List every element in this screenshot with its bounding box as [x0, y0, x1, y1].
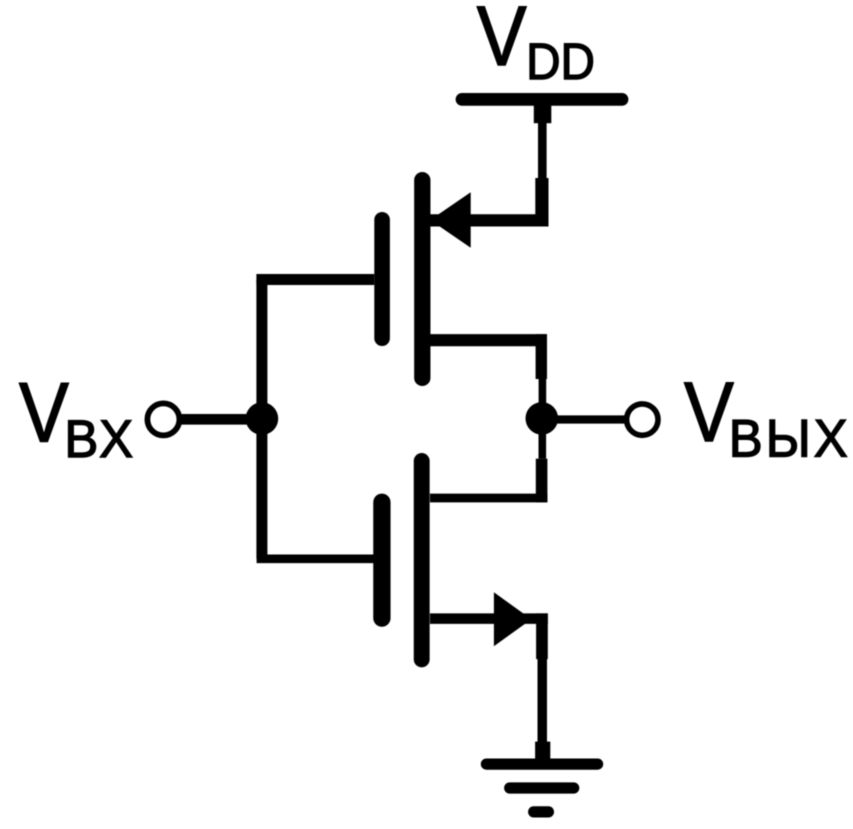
gate bus vertical wire — [256, 280, 267, 559]
NMOS source arrow (pointing out of channel) — [494, 592, 532, 646]
NMOS source wire (horizontal) — [430, 613, 548, 624]
PMOS drain wire (horizontal) — [430, 334, 547, 346]
PMOS source arrow (pointing into channel) — [430, 192, 471, 247]
PMOS source wire (horizontal) — [430, 214, 549, 226]
PMOS gate wire — [256, 274, 374, 285]
VDD power rail — [462, 93, 622, 106]
output terminal circle — [627, 404, 658, 435]
svg-text:ВХ: ВХ — [64, 410, 136, 469]
NMOS gate wire — [257, 554, 374, 563]
transistor Q2 NMOS channel bar — [414, 461, 430, 659]
ground symbol — [486, 764, 597, 812]
transistor Q1 PMOS channel bar — [414, 180, 430, 378]
wire output node to output terminal — [552, 415, 625, 423]
NMOS drain wire (horizontal) — [430, 494, 547, 503]
svg-text:V: V — [684, 365, 734, 459]
svg-text:DD: DD — [526, 34, 595, 91]
wire VDD rail to PMOS source pin — [534, 99, 552, 226]
transistor Q2 NMOS gate bar — [373, 502, 390, 618]
transistor Q1 PMOS gate bar — [374, 220, 390, 338]
wire NMOS source to ground — [535, 613, 550, 759]
wire output node to NMOS drain — [536, 424, 548, 502]
input wire terminal to input node — [180, 414, 262, 425]
input terminal circle — [147, 403, 179, 435]
svg-text:V: V — [19, 365, 69, 459]
net label Vвых — [684, 365, 851, 469]
net label Vвх — [19, 365, 136, 469]
wire PMOS drain to output node — [536, 334, 547, 412]
svg-text:ВЫХ: ВЫХ — [729, 410, 851, 469]
svg-text:V: V — [477, 0, 527, 83]
input node junction dot — [246, 402, 279, 435]
net label VDD — [477, 0, 595, 91]
output node junction dot — [526, 402, 559, 435]
